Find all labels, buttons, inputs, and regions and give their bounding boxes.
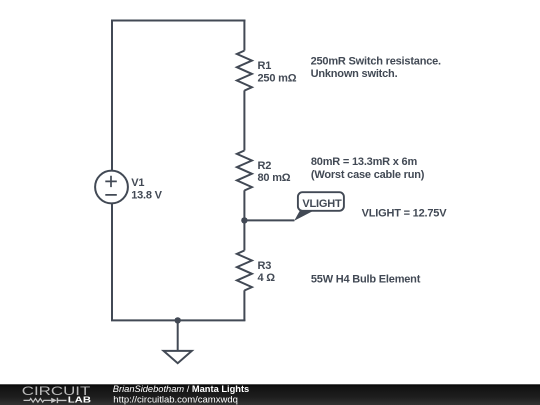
svg-text:13.8 V: 13.8 V [131, 189, 162, 201]
svg-text:V1: V1 [131, 177, 144, 189]
svg-text:LAB: LAB [68, 395, 91, 404]
svg-text:R3: R3 [258, 260, 272, 272]
svg-text:http://circuitlab.com/camxwdq: http://circuitlab.com/camxwdq [113, 394, 238, 405]
svg-text:R2: R2 [258, 160, 272, 172]
svg-text:55W H4 Bulb Element: 55W H4 Bulb Element [311, 273, 421, 285]
svg-text:VLIGHT = 12.75V: VLIGHT = 12.75V [362, 207, 448, 219]
svg-text:BrianSidebotham / Manta Lights: BrianSidebotham / Manta Lights [113, 384, 249, 394]
svg-text:(Worst case cable run): (Worst case cable run) [311, 169, 425, 181]
svg-text:4 Ω: 4 Ω [258, 272, 276, 284]
svg-text:80mR = 13.3mR x 6m: 80mR = 13.3mR x 6m [311, 156, 418, 168]
svg-text:250mR Switch resistance.: 250mR Switch resistance. [311, 55, 441, 67]
svg-text:80 mΩ: 80 mΩ [258, 172, 291, 184]
svg-text:R1: R1 [258, 60, 272, 72]
svg-text:Unknown switch.: Unknown switch. [311, 68, 398, 80]
svg-text:VLIGHT: VLIGHT [302, 198, 342, 210]
svg-text:250 mΩ: 250 mΩ [258, 72, 297, 84]
